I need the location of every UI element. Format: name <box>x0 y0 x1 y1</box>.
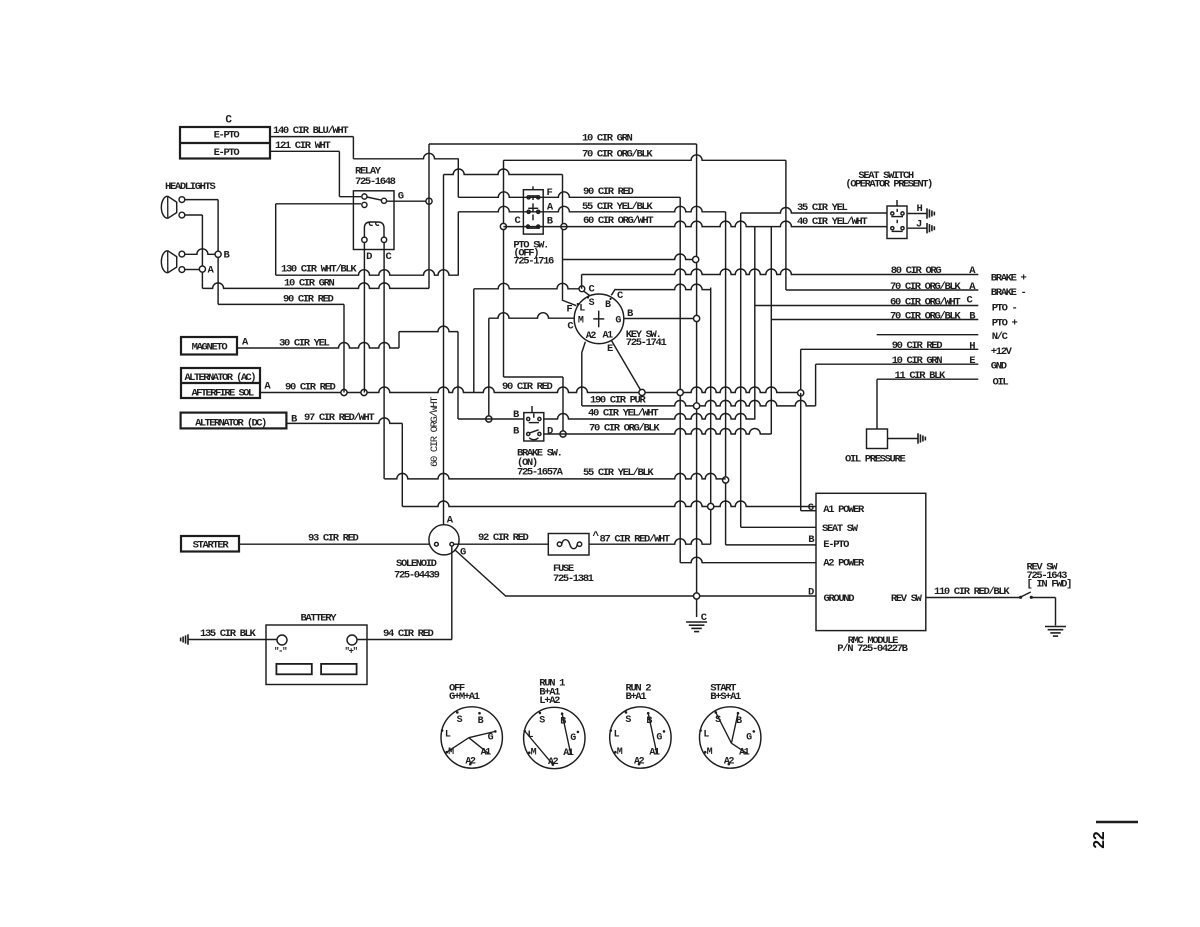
svg-text:SOLENOID: SOLENOID <box>396 558 437 570</box>
wire key G row <box>624 318 697 320</box>
pto switch tick <box>532 186 534 189</box>
svg-text:STARTER: STARTER <box>193 540 230 552</box>
starter box <box>181 536 239 552</box>
ground rev sw <box>1045 626 1066 628</box>
wire 121 CIR WHT <box>270 150 339 152</box>
node key G junction <box>694 315 700 321</box>
battery box <box>266 625 367 685</box>
svg-text:E-PTO: E-PTO <box>214 130 240 142</box>
wire headlight2 bottom to node A <box>185 269 200 271</box>
svg-text:GROUND: GROUND <box>824 593 855 605</box>
node key E junction <box>639 389 645 395</box>
wire headlight1 bottom to vertical A <box>185 214 203 216</box>
svg-text:90 CIR RED: 90 CIR RED <box>502 381 553 393</box>
relay contact lower <box>362 202 367 207</box>
wire 87 riser to A1 node <box>710 288 712 545</box>
relay box <box>353 191 394 250</box>
node A1 junction x710 <box>708 503 714 509</box>
wire GND row <box>816 363 979 365</box>
svg-text:35 CIR YEL: 35 CIR YEL <box>797 202 848 214</box>
node PTO C junction <box>500 223 506 229</box>
svg-text:121 CIR WHT: 121 CIR WHT <box>275 140 331 152</box>
svg-text:135 CIR BLK: 135 CIR BLK <box>200 628 257 640</box>
wire 140 CIR BLU/WHT <box>270 136 353 138</box>
wire seat J stub <box>908 227 927 229</box>
svg-text:A2: A2 <box>548 757 559 768</box>
ground seat J <box>926 223 928 233</box>
wire 30 CIR YEL upper jog <box>399 326 458 332</box>
wire oil pressure to ground <box>888 438 918 440</box>
brake switch box <box>524 413 544 441</box>
key switch cross <box>593 318 604 320</box>
svg-text:60 CIR ORG/WHT: 60 CIR ORG/WHT <box>583 215 653 227</box>
seat contact J <box>891 227 894 230</box>
svg-text:60 CIR ORG/WHT: 60 CIR ORG/WHT <box>890 296 960 308</box>
headlight lamp 2 <box>161 251 167 273</box>
svg-text:A1: A1 <box>649 748 660 759</box>
wire 70 drop right to brake minus <box>785 160 787 290</box>
svg-text:A2: A2 <box>586 331 597 342</box>
wire key M riser <box>488 318 490 419</box>
wire key A2 drop <box>581 353 583 406</box>
rmc module box <box>816 493 926 630</box>
key terminal C top <box>579 286 585 292</box>
svg-text:725-1741: 725-1741 <box>626 337 667 349</box>
wire 60 upper jog <box>444 169 563 175</box>
wire 190 CIR PUR <box>582 400 816 405</box>
svg-text:725-1716: 725-1716 <box>513 256 554 268</box>
node 60 junction on PTO B row <box>561 224 567 230</box>
wire 60/40 row <box>503 221 887 227</box>
alternator DC box <box>181 413 287 429</box>
svg-text:MAGNETO: MAGNETO <box>192 342 228 354</box>
svg-text:ALTERNATOR (AC): ALTERNATOR (AC) <box>184 372 255 384</box>
wire 70 CIR ORG/BLK upper <box>504 155 786 161</box>
wire 70 CIR ORG/BLK lower <box>544 429 772 434</box>
seat switch box <box>887 206 907 239</box>
wire GND riser <box>815 364 817 406</box>
svg-text:OIL PRESSURE: OIL PRESSURE <box>845 454 905 466</box>
wire 90 CIR RED pto F row <box>458 192 680 197</box>
wire 40 CIR YEL/WHT brake row <box>458 418 524 420</box>
svg-text:ALTERNATOR (DC): ALTERNATOR (DC) <box>195 417 266 429</box>
svg-text:L+A2: L+A2 <box>539 695 560 707</box>
svg-text:B+S+A1: B+S+A1 <box>710 691 741 703</box>
wire drop x344 <box>343 304 345 392</box>
svg-text:AFTERFIRE SOL: AFTERFIRE SOL <box>191 388 253 400</box>
relay pin G wire <box>387 200 429 202</box>
wire key L diagonal <box>562 300 577 306</box>
svg-text:55 CIR YEL/BLK: 55 CIR YEL/BLK <box>583 467 654 479</box>
key position RUN 2 <box>610 707 671 768</box>
svg-text:90 CIR RED: 90 CIR RED <box>283 293 334 305</box>
pto contact B <box>526 225 529 228</box>
battery cell 2 <box>321 664 357 674</box>
wire key C left riser <box>473 289 475 393</box>
wire A1 POWER row <box>402 501 816 507</box>
wire +12V row <box>801 348 979 350</box>
svg-text:(OPERATOR PRESENT): (OPERATOR PRESENT) <box>845 178 932 190</box>
wire NC row <box>877 334 979 336</box>
fuse contact left <box>557 542 561 546</box>
svg-text:90 CIR RED: 90 CIR RED <box>583 186 634 198</box>
wire 97 CIR RED/WHT <box>286 418 402 424</box>
wire 10 CIR GRN main drop <box>696 144 698 617</box>
svg-text:"-": "-" <box>274 647 287 657</box>
node 70 junction on lower row <box>560 431 566 437</box>
relay coil terminal D <box>362 237 367 242</box>
wire 60 main column <box>443 175 445 525</box>
svg-text:140 CIR BLU/WHT: 140 CIR BLU/WHT <box>273 125 348 137</box>
wire 93 CIR RED <box>239 543 429 545</box>
fuse contact right <box>577 542 581 546</box>
wire 110 CIR RED/BLK <box>926 597 1020 599</box>
wire 10 CIR GRN lower <box>202 283 429 289</box>
wire key C2 row <box>615 284 710 290</box>
wire vertical headlight A down to 10 CIR GRN row <box>201 215 203 288</box>
wire brake minus row <box>786 289 978 291</box>
wire pto minus row <box>755 305 979 307</box>
wire 10 CIR GRN riser <box>428 144 430 288</box>
svg-text:OIL: OIL <box>993 376 1009 388</box>
svg-text:70 CIR ORG/BLK: 70 CIR ORG/BLK <box>890 281 961 293</box>
key C diagonal <box>584 291 590 296</box>
svg-text:90 CIR RED: 90 CIR RED <box>892 340 943 352</box>
svg-text:70 CIR ORG/BLK: 70 CIR ORG/BLK <box>582 148 653 160</box>
battery terminal plus <box>347 635 357 645</box>
key switch body <box>574 294 624 344</box>
svg-text:70 CIR ORG/BLK: 70 CIR ORG/BLK <box>890 310 961 322</box>
battery cell 1 <box>276 664 311 674</box>
svg-text:"+": "+" <box>345 647 358 657</box>
wire GROUND row <box>505 595 816 597</box>
solenoid contact right <box>450 542 454 546</box>
node 190 junction x696 <box>694 403 700 409</box>
relay coil <box>364 222 384 238</box>
svg-text:A1: A1 <box>602 330 613 341</box>
node 259 junction <box>693 256 699 262</box>
fuse element <box>562 540 578 549</box>
wire 121 to relay contact <box>339 196 361 198</box>
node relay G junction <box>426 198 432 204</box>
svg-text:+12V: +12V <box>991 346 1013 358</box>
svg-text:40 CIR YEL/WHT: 40 CIR YEL/WHT <box>588 407 658 419</box>
wire key C row <box>474 283 579 289</box>
svg-text:E-PTO: E-PTO <box>823 539 849 551</box>
brake switch tick <box>531 406 533 413</box>
svg-text:[ IN FWD]: [ IN FWD] <box>1027 579 1072 591</box>
svg-text:BATTERY: BATTERY <box>301 612 338 624</box>
svg-text:A2: A2 <box>465 756 476 767</box>
seat switch tick top <box>896 200 898 206</box>
wire 130 CIR WHT/BLK <box>276 270 459 276</box>
wire 55 CIR YEL/BLK upper <box>458 206 725 211</box>
wire 94 CIR RED <box>357 639 452 641</box>
svg-text:A1: A1 <box>563 748 574 759</box>
wire 35 riser <box>740 213 742 527</box>
oil pressure box <box>867 429 888 449</box>
ground seat H <box>926 208 928 218</box>
svg-text:P/N 725-04227B: P/N 725-04227B <box>837 643 908 655</box>
magneto box <box>181 337 237 355</box>
wire seat J drop at 754 <box>754 227 756 420</box>
wire 90 CIR RED main row <box>260 387 801 392</box>
wire 130 riser to PTO A row <box>457 212 459 275</box>
wire 70 jog <box>504 376 564 378</box>
svg-text:A1 POWER: A1 POWER <box>823 504 865 516</box>
solenoid contact left <box>435 542 439 546</box>
battery terminal minus <box>277 635 287 645</box>
ground oil pressure <box>917 433 919 443</box>
wire solenoid diagonal to ground row <box>455 550 506 597</box>
svg-text:60 CIR ORG/WHT: 60 CIR ORG/WHT <box>429 397 441 467</box>
wire 55 CIR YEL/BLK lower <box>384 473 725 478</box>
svg-text:E-PTO: E-PTO <box>214 147 240 159</box>
wire OIL row <box>877 378 978 380</box>
svg-text:SEAT SW: SEAT SW <box>822 523 859 535</box>
wire 135 CIR BLK <box>188 639 277 641</box>
key E diagonal <box>611 340 642 392</box>
wire key F riser <box>562 175 564 300</box>
ground C symbol <box>686 621 707 623</box>
wire 30 CIR YEL <box>237 343 399 349</box>
svg-text:11 CIR BLK: 11 CIR BLK <box>895 370 947 382</box>
svg-text:N/C: N/C <box>992 331 1009 343</box>
rev switch <box>1019 596 1022 599</box>
wire relay D down to 90 CIR RED <box>363 243 365 393</box>
relay contact common <box>381 198 386 203</box>
wire key M row <box>489 313 575 319</box>
fuse box <box>548 534 589 556</box>
brake contact bottom <box>527 432 530 435</box>
relay contact upper <box>362 194 367 199</box>
svg-text:93 CIR RED: 93 CIR RED <box>308 533 359 545</box>
relay coil terminal C <box>381 237 386 242</box>
svg-text:BRAKE -: BRAKE - <box>991 287 1026 299</box>
seat switch mid tick <box>896 220 898 224</box>
svg-text:190 CIR PUR: 190 CIR PUR <box>590 394 647 406</box>
headlight lamp 1 <box>161 196 167 218</box>
key position RUN 1 <box>524 707 585 768</box>
pto contact A <box>527 210 530 213</box>
wire 87 CIR RED/WHT <box>589 539 711 545</box>
svg-text:725-1648: 725-1648 <box>355 176 396 188</box>
wire 70 upper drop at 503 <box>503 160 505 377</box>
wire 90 pto drop <box>679 197 681 563</box>
ground at 135 CIR BLK <box>187 634 189 644</box>
svg-text:725-1657A: 725-1657A <box>517 467 564 479</box>
node 90 junction x800 <box>798 390 804 396</box>
node A junction <box>199 266 205 272</box>
brake contact top <box>527 417 530 420</box>
node ground junction x696 <box>694 593 700 599</box>
wire 55 drop to E-PTO pin <box>725 212 727 545</box>
svg-text:97 CIR RED/WHT: 97 CIR RED/WHT <box>304 412 374 424</box>
wire 30 CIR YEL drop to brake row <box>457 332 459 419</box>
wire 80 riser from key C node <box>581 275 583 289</box>
wire +12V riser <box>800 349 802 393</box>
svg-text:PTO +: PTO + <box>992 317 1018 329</box>
wire 140 lower jog <box>353 153 458 159</box>
svg-text:GND: GND <box>991 360 1007 372</box>
relay blade <box>367 197 382 200</box>
svg-text:HEADLIGHTS: HEADLIGHTS <box>165 181 216 193</box>
wire relay lower contact left <box>276 203 361 205</box>
wire headlight1 top to vertical B <box>185 199 219 201</box>
wire key F/259 row <box>563 254 696 259</box>
page rule <box>1096 821 1138 824</box>
wire 10 CIR GRN upper <box>429 143 697 145</box>
svg-text:PTO -: PTO - <box>992 302 1017 314</box>
connector C (E-PTO block) <box>180 127 270 159</box>
seat contact H <box>891 212 894 215</box>
node brake B junction <box>486 416 492 422</box>
wire 97 drop <box>401 423 403 506</box>
wire RMC G riser <box>800 393 802 511</box>
node 90/E junction x681 <box>677 389 683 395</box>
svg-text:G+M+A1: G+M+A1 <box>449 691 480 703</box>
wire vertical from headlight1 top down to 90 CIR RED row <box>217 200 219 305</box>
svg-text:A2: A2 <box>634 756 645 767</box>
svg-text:22: 22 <box>1091 831 1108 848</box>
svg-text:90 CIR RED: 90 CIR RED <box>285 381 336 393</box>
svg-text:55 CIR YEL/BLK: 55 CIR YEL/BLK <box>582 201 653 213</box>
key position START <box>700 707 761 768</box>
node 55 junction x725 <box>723 477 729 483</box>
wire E-PTO row <box>726 544 816 546</box>
svg-text:REV SW: REV SW <box>891 593 923 605</box>
wire relay detour drop <box>275 204 277 275</box>
wire SEAT SW row <box>741 526 816 528</box>
svg-text:10 CIR GRN: 10 CIR GRN <box>892 355 943 367</box>
pto contact F <box>527 196 530 199</box>
wire 140 drop <box>352 137 354 159</box>
wire A2 POWER row <box>680 557 816 563</box>
key C2 diagonal <box>611 289 615 295</box>
wire 70 jog drop <box>562 377 564 434</box>
key position OFF <box>441 707 502 768</box>
node on 90 CIR RED at x344 <box>341 389 347 395</box>
wire 90 CIR RED upper row <box>218 303 344 305</box>
solenoid body <box>429 525 459 555</box>
svg-text:725-04439: 725-04439 <box>394 570 440 582</box>
pto switch box <box>523 190 543 234</box>
wire 92 CIR RED <box>454 543 549 545</box>
wire rev sw to ground <box>1032 597 1056 599</box>
svg-text:70 CIR ORG/BLK: 70 CIR ORG/BLK <box>589 422 660 434</box>
svg-text:10 CIR GRN: 10 CIR GRN <box>284 277 335 289</box>
svg-text:725-1381: 725-1381 <box>553 573 594 585</box>
svg-text:A2: A2 <box>724 756 735 767</box>
svg-text:10 CIR GRN: 10 CIR GRN <box>582 133 633 145</box>
wire 35 CIR YEL <box>741 208 887 214</box>
wire seat J drop at 771 <box>770 227 772 434</box>
wire pto plus row <box>771 319 978 321</box>
node B junction <box>215 251 221 257</box>
alternator AC / afterfire sol box <box>181 368 260 398</box>
wire 80 CIR ORG row <box>582 269 979 275</box>
svg-text:94 CIR RED: 94 CIR RED <box>383 628 434 640</box>
svg-text:A2 POWER: A2 POWER <box>823 558 865 570</box>
wire 121 drop <box>338 151 340 196</box>
svg-text:110 CIR RED/BLK: 110 CIR RED/BLK <box>934 586 1010 598</box>
wire 140 drop2 to PTO F row <box>457 159 459 198</box>
wire oil pressure riser <box>876 379 878 429</box>
wire RMC G stub <box>801 510 816 512</box>
wire relay C down to 55 CIR YEL/BLK row <box>383 243 385 479</box>
wire seat H stub <box>908 213 927 215</box>
svg-text:B+A1: B+A1 <box>626 691 647 703</box>
wire 30 CIR YEL riser <box>398 332 400 348</box>
svg-text:130 CIR WHT/BLK: 130 CIR WHT/BLK <box>281 264 357 276</box>
wire headlight2 top to node B <box>185 249 215 254</box>
key A2 diagonal <box>582 342 586 353</box>
wire solenoid drop <box>451 546 453 640</box>
svg-text:BRAKE +: BRAKE + <box>991 273 1027 285</box>
node on 90 CIR RED at x364 <box>361 389 367 395</box>
svg-text:92 CIR RED: 92 CIR RED <box>478 532 529 544</box>
